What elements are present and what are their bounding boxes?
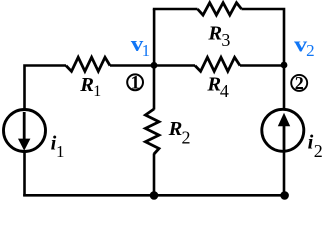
- node marker 2: [291, 73, 307, 93]
- wire left branch lower: [23, 152, 26, 196]
- svg-text:i: i: [308, 132, 314, 154]
- node marker 1: [127, 73, 143, 93]
- svg-text:R: R: [168, 118, 183, 140]
- label v1: [131, 31, 150, 60]
- resistor R2: [145, 109, 159, 154]
- wire v2 branch lower: [283, 65, 286, 196]
- wire left branch top: [23, 64, 66, 109]
- node v1 dot: [151, 62, 158, 69]
- wire R1 to node v1: [110, 64, 154, 67]
- current source i1: [4, 110, 46, 152]
- label i1: [51, 132, 65, 160]
- wire v1 riser: [153, 9, 156, 67]
- wire top rail right: [242, 8, 286, 66]
- label R2: [168, 118, 191, 148]
- label R3: [207, 22, 230, 50]
- wire R2 branch lower: [153, 154, 156, 197]
- wire top rail left: [153, 8, 198, 11]
- bottom junction node right: [280, 191, 289, 200]
- svg-text:2: 2: [295, 73, 304, 93]
- wire R4 to node v2: [240, 64, 284, 67]
- bottom junction node R2: [150, 191, 159, 200]
- resistor R1: [66, 57, 110, 71]
- svg-text:2: 2: [314, 141, 323, 161]
- node v2 dot: [281, 62, 288, 69]
- wire bottom rail: [23, 194, 285, 197]
- svg-text:R: R: [207, 22, 222, 44]
- svg-text:3: 3: [221, 30, 230, 50]
- resistor R4: [195, 57, 240, 71]
- svg-text:2: 2: [182, 128, 191, 148]
- label R4: [206, 74, 229, 102]
- resistor R3: [198, 3, 242, 15]
- svg-text:2: 2: [306, 41, 315, 60]
- svg-text:1: 1: [142, 41, 151, 60]
- svg-text:4: 4: [220, 81, 229, 101]
- label v2: [294, 32, 314, 61]
- label R1: [79, 74, 101, 100]
- label i2: [308, 132, 323, 162]
- wire R2 branch upper: [153, 66, 156, 110]
- svg-text:R: R: [79, 74, 94, 96]
- wire middle v1 to R4: [154, 64, 195, 67]
- current source i2: [262, 109, 304, 151]
- svg-text:1: 1: [131, 73, 140, 93]
- svg-text:1: 1: [93, 83, 101, 100]
- svg-text:R: R: [206, 74, 221, 96]
- svg-text:1: 1: [56, 142, 65, 161]
